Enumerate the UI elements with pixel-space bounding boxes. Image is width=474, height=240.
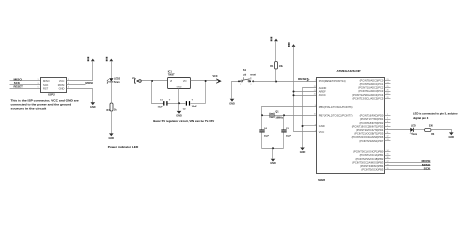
svg-text:GND: GND bbox=[109, 137, 115, 140]
svg-text:(PCINT0/CLKO/ICP1)PB0: (PCINT0/CLKO/ICP1)PB0 bbox=[353, 150, 384, 154]
note ISP description bbox=[11, 99, 79, 111]
svg-text:PB6(XTAL1/TOSC1/PCINT6): PB6(XTAL1/TOSC1/PCINT6) bbox=[319, 105, 353, 109]
wire AVCC to rail bbox=[294, 95, 317, 97]
svg-text:AREF: AREF bbox=[319, 90, 326, 94]
VCC supply (MCU) bbox=[288, 43, 295, 47]
svg-text:RESET: RESET bbox=[14, 85, 23, 89]
wire SCK net bbox=[10, 84, 41, 86]
ground (LED) bbox=[449, 132, 455, 139]
wire R4 to ground bbox=[111, 111, 113, 134]
switch S1 reset bbox=[238, 68, 256, 86]
svg-text:(PCINT17/TXD)PD1: (PCINT17/TXD)PD1 bbox=[360, 117, 384, 121]
pin numbers ISP left 1,3,5 bbox=[38, 79, 39, 88]
svg-text:GND: GND bbox=[177, 86, 182, 88]
wire switch left to ground bbox=[232, 82, 242, 99]
svg-text:2: 2 bbox=[251, 84, 252, 86]
LED D1 bbox=[410, 124, 417, 136]
svg-text:sources in the circuit: sources in the circuit bbox=[11, 107, 47, 111]
resistor R1 10k bbox=[270, 62, 283, 70]
wire MISO (PB4) bbox=[385, 165, 431, 167]
node GND junction bbox=[302, 125, 304, 127]
svg-text:(PCINT18/INT0)PD2: (PCINT18/INT0)PD2 bbox=[360, 121, 384, 125]
wire XTAL2 bbox=[275, 115, 317, 117]
svg-text:(PCINT2/SS/OC1B)PB2: (PCINT2/SS/OC1B)PB2 bbox=[355, 157, 383, 161]
svg-text:(PCINT16/RXD)PD0: (PCINT16/RXD)PD0 bbox=[360, 114, 384, 118]
capacitor C1 bbox=[157, 99, 170, 109]
svg-text:GND: GND bbox=[176, 114, 182, 117]
svg-text:3: 3 bbox=[38, 83, 39, 85]
svg-text:10uF: 10uF bbox=[192, 106, 198, 108]
pin labels left side bbox=[319, 79, 353, 134]
svg-text:GND: GND bbox=[270, 162, 276, 165]
wire SCK (PB5) bbox=[385, 169, 431, 171]
svg-text:20: 20 bbox=[314, 94, 316, 96]
pin stubs right side bbox=[385, 81, 391, 159]
wire VOUT down bbox=[205, 81, 207, 104]
svg-text:(PCINT22/OC0A/AIN0)PD6: (PCINT22/OC0A/AIN0)PD6 bbox=[352, 135, 384, 139]
pin numbers left side bbox=[314, 79, 316, 132]
svg-text:(PCINT3/OC2A/MOSI)PB3: (PCINT3/OC2A/MOSI)PB3 bbox=[352, 160, 384, 164]
connector ISP2 bbox=[41, 78, 67, 97]
wire crystal left bbox=[262, 115, 270, 117]
svg-text:1: 1 bbox=[38, 79, 39, 81]
note LED description bbox=[413, 112, 458, 120]
capacitor C3 22pF bbox=[281, 116, 291, 149]
svg-text:RESET: RESET bbox=[298, 77, 308, 81]
ground (crystal) bbox=[270, 159, 276, 166]
svg-text:PB7(XTAL2/TOSC2/PCINT7): PB7(XTAL2/TOSC2/PCINT7) bbox=[319, 113, 353, 117]
node crystal gnd junction bbox=[272, 147, 274, 149]
svg-text:digital pin 3: digital pin 3 bbox=[413, 116, 429, 120]
svg-text:VCC: VCC bbox=[213, 75, 218, 78]
svg-text:7805T: 7805T bbox=[168, 73, 175, 76]
pin numbers right side bbox=[386, 79, 388, 170]
wire MISO net (left stub) bbox=[10, 80, 41, 82]
svg-text:10k: 10k bbox=[279, 65, 284, 68]
svg-text:(PCINT12/SDA/ADC4)PC4: (PCINT12/SDA/ADC4)PC4 bbox=[352, 93, 384, 97]
wire C1 to center gnd node bbox=[168, 103, 186, 105]
svg-text:RST: RST bbox=[43, 87, 49, 91]
node VOUT junction bbox=[205, 80, 207, 82]
node VIN junction bbox=[151, 80, 153, 82]
svg-text:GND: GND bbox=[300, 151, 306, 154]
ground (power indicator) bbox=[109, 133, 115, 140]
svg-text:AVCC: AVCC bbox=[319, 93, 326, 97]
svg-text:GND: GND bbox=[229, 102, 235, 105]
wire J1 to IC1 VI bbox=[142, 80, 168, 82]
wire LED2 to R4 bbox=[111, 82, 113, 103]
wire ISP GND pin down bbox=[67, 89, 93, 103]
svg-text:VI: VI bbox=[170, 80, 173, 83]
svg-text:(PCINT19/OC2B/INT1)PD3: (PCINT19/OC2B/INT1)PD3 bbox=[352, 124, 384, 128]
ground (regulator) bbox=[176, 111, 182, 118]
IC ATMEGA328-DIP bbox=[317, 69, 385, 182]
svg-text:(PCINT11/ADC3)PC3: (PCINT11/ADC3)PC3 bbox=[358, 89, 383, 93]
wire IC1 GND pin down bbox=[178, 89, 180, 104]
svg-text:7: 7 bbox=[315, 130, 316, 132]
svg-text:VCC: VCC bbox=[319, 130, 325, 134]
wire MOSI (PB3) bbox=[385, 162, 431, 164]
wire R1 to VCC bbox=[275, 42, 277, 62]
svg-text:ISP2: ISP2 bbox=[48, 93, 55, 97]
svg-text:(PCINT1/OC1A)PB1: (PCINT1/OC1A)PB1 bbox=[360, 153, 384, 157]
wire XTAL1 bbox=[262, 107, 317, 116]
wire ISP VCC pin to VCC rail bbox=[67, 62, 93, 81]
svg-text:1: 1 bbox=[240, 84, 241, 86]
wire C2 to VOUT node bbox=[191, 103, 206, 105]
svg-text:VCC: VCC bbox=[59, 79, 65, 83]
svg-text:PC6(RESET/PCINT14): PC6(RESET/PCINT14) bbox=[319, 79, 346, 83]
svg-text:8: 8 bbox=[315, 124, 316, 126]
node AVCC junction bbox=[293, 94, 295, 96]
svg-text:GND: GND bbox=[90, 106, 96, 109]
pin labels right side bbox=[352, 78, 384, 171]
wire VCC to LED2 bbox=[111, 62, 113, 79]
svg-text:GND: GND bbox=[59, 87, 65, 91]
svg-text:MOSI: MOSI bbox=[85, 81, 93, 85]
svg-text:reset: reset bbox=[250, 73, 256, 76]
wire IC1 VO output bbox=[191, 80, 220, 82]
svg-text:(PCINT10/ADC2)PC2: (PCINT10/ADC2)PC2 bbox=[358, 86, 384, 90]
svg-text:MISO: MISO bbox=[43, 79, 50, 83]
LED LED2 bbox=[107, 78, 121, 84]
svg-text:(PCINT21/OC0B/T1)PD5: (PCINT21/OC0B/T1)PD5 bbox=[354, 132, 384, 136]
svg-text:22pF: 22pF bbox=[264, 136, 270, 138]
wire LED to R3 bbox=[414, 129, 425, 131]
svg-text:21: 21 bbox=[314, 90, 316, 92]
wire AREF to rail bbox=[294, 91, 317, 93]
svg-text:AGND: AGND bbox=[319, 86, 327, 90]
wire AGND down to ground bbox=[303, 88, 317, 148]
wire switch to RESET pin bbox=[254, 81, 317, 83]
VCC supply (regulator output, right arrow) bbox=[213, 75, 221, 83]
svg-text:10uF: 10uF bbox=[157, 107, 163, 109]
wire R3 to ground bbox=[432, 130, 452, 133]
capacitor C2 bbox=[183, 99, 198, 111]
svg-text:16MHz: 16MHz bbox=[275, 117, 283, 120]
wire junction to ground bbox=[178, 104, 180, 111]
resistor R3 330 bbox=[425, 125, 435, 136]
svg-text:1: 1 bbox=[315, 79, 316, 81]
svg-text:LED: LED bbox=[411, 124, 416, 127]
svg-text:(PCINT23/AIN1)PD7: (PCINT23/AIN1)PD7 bbox=[359, 139, 383, 143]
node XTAL1 junction bbox=[261, 114, 263, 116]
svg-text:M328: M328 bbox=[318, 178, 325, 182]
VCC supply (ISP) bbox=[87, 57, 94, 61]
connector J1 (power input) bbox=[132, 77, 141, 83]
svg-text:SCK: SCK bbox=[424, 166, 432, 170]
node regulator gnd junction bbox=[178, 102, 180, 104]
wire to ground bbox=[272, 149, 274, 159]
wire VCC rail down to VCC pin bbox=[294, 47, 317, 132]
svg-text:MOSI: MOSI bbox=[58, 83, 65, 87]
svg-text:VO: VO bbox=[183, 80, 187, 83]
svg-text:GND: GND bbox=[319, 124, 325, 128]
node R1 junction bbox=[275, 81, 277, 83]
resistor R4 1k bbox=[107, 103, 118, 112]
VCC supply (reset pullup) bbox=[271, 37, 278, 41]
wire VIN down to C1 bbox=[152, 81, 164, 104]
VCC supply (power indicator) bbox=[106, 57, 113, 61]
ground (reset switch) bbox=[229, 99, 235, 106]
voltage regulator IC1 7805T bbox=[168, 70, 191, 89]
wire PD pin to LED bbox=[385, 129, 411, 131]
node XTAL2 junction bbox=[283, 114, 285, 116]
svg-text:(PCINT4/MISO)PB4: (PCINT4/MISO)PB4 bbox=[360, 164, 384, 168]
svg-text:GND: GND bbox=[449, 136, 455, 139]
svg-text:330: 330 bbox=[429, 125, 434, 128]
crystal Q1 16MHz bbox=[270, 110, 284, 119]
svg-text:Power indicator LED: Power indicator LED bbox=[108, 145, 139, 149]
wire GND pin bbox=[303, 125, 317, 127]
svg-text:5: 5 bbox=[38, 87, 39, 89]
svg-text:S1: S1 bbox=[243, 68, 247, 72]
svg-text:9: 9 bbox=[315, 105, 316, 107]
wire R1 bottom bbox=[275, 70, 277, 82]
svg-text:5mm: 5mm bbox=[412, 133, 418, 136]
ground (MCU) bbox=[300, 148, 306, 155]
capacitor C4 22pF bbox=[259, 116, 269, 149]
wire RESET net bbox=[10, 88, 41, 90]
pin numbers ISP right 2,4,6 bbox=[68, 79, 69, 88]
svg-text:ATMEGA328-DIP: ATMEGA328-DIP bbox=[337, 69, 361, 73]
ground (ISP) bbox=[90, 102, 96, 109]
wire ISP MOSI stub bbox=[67, 84, 86, 86]
node AREF junction bbox=[293, 91, 295, 93]
svg-text:Basic 5V regulator circuit, VI: Basic 5V regulator circuit, VIN can be 7… bbox=[153, 119, 214, 123]
svg-text:5mm: 5mm bbox=[114, 81, 120, 84]
svg-text:(PCINT8/ADC0)PC0: (PCINT8/ADC0)PC0 bbox=[360, 78, 384, 82]
svg-text:(PCINT5/SCK)PB5: (PCINT5/SCK)PB5 bbox=[361, 168, 383, 172]
svg-text:10: 10 bbox=[314, 114, 316, 116]
svg-text:(PCINT20/XCK/T0)PD4: (PCINT20/XCK/T0)PD4 bbox=[356, 128, 384, 132]
svg-text:22pF: 22pF bbox=[286, 136, 292, 138]
svg-text:SCK: SCK bbox=[43, 83, 49, 87]
svg-text:(PCINT9/ADC1)PC1: (PCINT9/ADC1)PC1 bbox=[360, 82, 384, 86]
wire crystal ground rail bbox=[262, 148, 284, 150]
svg-text:22: 22 bbox=[314, 86, 316, 88]
pin 1 decoration bbox=[307, 79, 309, 81]
svg-text:(PCINT13/SCL/ADC5)PC5: (PCINT13/SCL/ADC5)PC5 bbox=[352, 96, 383, 100]
